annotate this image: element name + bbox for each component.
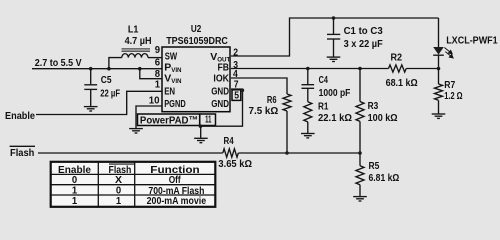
svg-text:LXCL-PWF1: LXCL-PWF1 — [446, 35, 498, 47]
svg-text:1: 1 — [116, 195, 121, 207]
wire input rail — [32, 68, 162, 70]
svg-text:1000 pF: 1000 pF — [319, 87, 351, 99]
svg-text:Flash: Flash — [10, 147, 34, 159]
svg-text:Enable: Enable — [5, 110, 35, 122]
wire Flash rail — [38, 152, 223, 154]
node pin11 — [199, 124, 203, 128]
svg-text:5: 5 — [234, 90, 239, 102]
wire L1 to SW — [148, 57, 162, 59]
node R5 top — [358, 151, 362, 155]
resistor R1 — [304, 102, 312, 122]
ground pin11 — [194, 138, 208, 142]
svg-text:PowerPAD™: PowerPAD™ — [140, 115, 198, 127]
svg-text:GND: GND — [211, 85, 229, 97]
resistor R5 — [359, 153, 361, 166]
svg-text:6: 6 — [155, 57, 160, 69]
inductor L1 — [122, 54, 148, 58]
svg-text:R1: R1 — [318, 101, 329, 113]
svg-text:7.5 kΩ: 7.5 kΩ — [249, 105, 279, 117]
ground PGND — [129, 129, 143, 133]
IC U2 TPS61059DRC — [162, 47, 230, 112]
capacitor C5 — [84, 69, 97, 107]
svg-text:PGND: PGND — [164, 98, 186, 110]
pin 11 box — [200, 114, 216, 126]
svg-text:11: 11 — [205, 113, 211, 125]
svg-text:3.65 kΩ: 3.65 kΩ — [218, 158, 252, 170]
svg-text:C4: C4 — [319, 74, 328, 86]
svg-text:U2: U2 — [191, 23, 202, 35]
svg-text:C5: C5 — [101, 74, 112, 86]
wire pin11 to ground — [200, 126, 202, 138]
node C5 junction — [89, 67, 93, 71]
svg-text:3 x 22 µF: 3 x 22 µF — [344, 38, 384, 50]
svg-text:R4: R4 — [224, 135, 234, 147]
wire GND pins net — [201, 89, 243, 126]
ground C5 — [84, 107, 98, 111]
svg-text:1.2 Ω: 1.2 Ω — [444, 90, 462, 102]
svg-text:100 kΩ: 100 kΩ — [368, 112, 398, 124]
node C1C3 top — [332, 16, 336, 20]
svg-text:6.81 kΩ: 6.81 kΩ — [369, 172, 400, 184]
truth table — [51, 162, 216, 207]
pin 5 box — [232, 90, 241, 101]
svg-text:4.7 µH: 4.7 µH — [125, 35, 152, 47]
svg-text:R5: R5 — [369, 160, 380, 172]
resistor R3 — [359, 69, 361, 102]
svg-text:C1 to C3: C1 to C3 — [344, 25, 383, 37]
svg-text:22 µF: 22 µF — [100, 88, 120, 100]
svg-text:1: 1 — [72, 195, 77, 207]
svg-text:R2: R2 — [391, 52, 403, 64]
wire top rail to LED — [438, 18, 440, 47]
ground R7 — [432, 114, 446, 118]
svg-text:R3: R3 — [368, 100, 379, 112]
wire VVIN branch — [140, 69, 162, 79]
ground R1 — [301, 134, 315, 138]
wire FB rail — [231, 68, 389, 70]
node R3 top — [358, 67, 362, 71]
ground C1C3 — [327, 57, 341, 61]
svg-text:TPS61059DRC: TPS61059DRC — [166, 35, 228, 47]
wire VOUT to top rail — [231, 18, 439, 56]
Flash label overline — [10, 145, 35, 147]
svg-text:10: 10 — [149, 94, 160, 106]
wire Enable to EN — [36, 91, 162, 114]
svg-text:9: 9 — [155, 44, 160, 56]
svg-text:1: 1 — [155, 78, 160, 90]
LED emission arrows — [444, 48, 453, 58]
LED diode triangle — [433, 47, 444, 55]
svg-text:IOK: IOK — [213, 72, 229, 84]
node R6 bottom — [285, 151, 289, 155]
svg-text:2.7 to 5.5 V: 2.7 to 5.5 V — [35, 57, 82, 69]
ground R5 — [353, 197, 367, 201]
node L1 junction — [107, 67, 111, 71]
wire LED to node — [438, 55, 440, 68]
resistor R7 — [438, 69, 440, 85]
resistor R2 — [389, 65, 407, 72]
svg-text:2: 2 — [233, 47, 238, 59]
wire Flash rail right — [238, 152, 360, 154]
svg-text:EN: EN — [164, 85, 175, 97]
resistor R4 — [223, 149, 239, 157]
svg-text:L1: L1 — [128, 24, 139, 36]
svg-text:GND: GND — [211, 98, 229, 110]
wire IOK to R6 — [231, 78, 287, 94]
svg-text:200-mA movie: 200-mA movie — [147, 195, 207, 207]
wire PGND — [136, 106, 162, 129]
capacitor C1 to C3 — [327, 18, 340, 57]
node C4 top — [306, 67, 310, 71]
svg-text:22.1 kΩ: 22.1 kΩ — [318, 112, 352, 124]
wire to inductor — [109, 58, 122, 69]
capacitor C4 — [302, 69, 315, 102]
PowerPAD box — [138, 114, 200, 126]
resistor R6 — [283, 94, 291, 111]
svg-text:68.1 kΩ: 68.1 kΩ — [386, 77, 418, 89]
node pin5 junction — [241, 89, 245, 93]
node R2 LED R7 — [437, 67, 441, 71]
node VVIN junction — [138, 67, 142, 71]
